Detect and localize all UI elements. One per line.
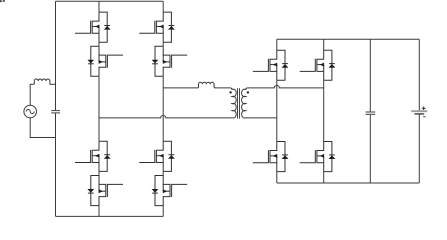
wire: leg from S4 to bottom rail [98, 206, 100, 217]
transistor S2 (MOSFET rotated 180deg, body diode left) [87, 46, 123, 76]
battery B1 minus sign [423, 116, 425, 118]
transistor Q4 (MOSFET with body diode) [300, 142, 336, 172]
battery B1 short negative plate [414, 113, 424, 115]
wire: leg between S7 and S8 [162, 171, 164, 175]
wire: right leg Q4 to bottom rail [323, 172, 325, 183]
wire: leg between S5 and S6 [162, 42, 164, 46]
capacitor C2 top lead [369, 39, 371, 111]
transformer T1 secondary winding [242, 88, 248, 118]
wire: left bridge top rail [56, 0, 164, 2]
battery B1 top lead [418, 39, 420, 110]
transistor S5 (MOSFET with body diode) [139, 12, 175, 42]
wire: leg1 midpoint to transformer primary bottom, hop over leg2 [99, 115, 230, 117]
battery B1 long positive plate [411, 110, 427, 112]
transformer T1 secondary polarity dot [247, 91, 249, 93]
wire: leg from S2 through midpoint node to S3 [98, 76, 100, 141]
transistor S8 (MOSFET rotated 180deg, body diode left) [152, 176, 188, 206]
transistor S7 (MOSFET with body diode) [139, 141, 175, 171]
wire: L1 to input node [50, 83, 56, 85]
wire: right bridge bottom rail [277, 182, 420, 184]
wire: right leg Q3 to midpoint and Q4 [323, 80, 325, 141]
wire: leg from S6 through midpoint node to S7 [162, 76, 164, 141]
capacitor C1 upper lead [55, 1, 57, 110]
transformer T1 primary polarity dot [229, 91, 231, 93]
wire: leg from S8 to bottom rail [162, 206, 164, 217]
battery B1 plus sign [422, 107, 426, 111]
wire: leg between S3 and S4 [98, 171, 100, 175]
transistor S4 (MOSFET rotated 180deg, body diode left) [87, 176, 123, 206]
inductor L2 series DAB inductor [199, 82, 215, 88]
capacitor C2 bottom lead [369, 115, 371, 183]
wire: L2 to transformer primary top [214, 87, 230, 89]
transistor S3 (MOSFET with body diode) [75, 141, 111, 171]
wire: right leg Q2 to bottom rail [276, 172, 278, 183]
wire: secondary top to right leg B midpoint, hop over leg A [248, 85, 324, 87]
capacitor C2 plates [366, 112, 376, 114]
transistor Q2 (MOSFET with body diode) [253, 142, 289, 172]
wire: left bridge bottom rail [56, 215, 164, 217]
inductor L1 input filter [34, 79, 50, 84]
wire: right leg from top rail into Q1 [276, 39, 278, 50]
wire: leg feed from top rail into S5 [162, 1, 164, 12]
capacitor C1 lower lead [55, 113, 57, 216]
wire: leg between S1 and S2 [98, 42, 100, 46]
battery B1 bottom lead [418, 115, 420, 184]
wire: leg2 midpoint to series inductor [163, 87, 198, 89]
wire: AC source bottom lead [30, 118, 55, 138]
transistor Q3 (MOSFET with body diode) [300, 50, 336, 80]
wire: right leg Q1 to midpoint and Q2 [276, 80, 278, 141]
stray cropped text mark at top-left corner [0, 0, 5, 2]
transistor Q1 (MOSFET with body diode) [253, 50, 289, 80]
transformer T1 core [238, 88, 240, 118]
wire: AC source top lead [30, 84, 34, 105]
wire: right leg from top rail into Q3 [323, 39, 325, 50]
wire: right bridge top rail [277, 38, 420, 40]
transistor S1 (MOSFET with body diode) [75, 12, 111, 42]
transformer T1 primary winding [230, 88, 236, 118]
ac source V1 [24, 105, 37, 118]
wire: leg feed from top rail into S1 [98, 1, 100, 12]
transistor S6 (MOSFET rotated 180deg, body diode left) [152, 46, 188, 76]
wire: secondary bottom to right leg A midpoint [247, 117, 276, 119]
capacitor C1 plates [51, 111, 60, 113]
